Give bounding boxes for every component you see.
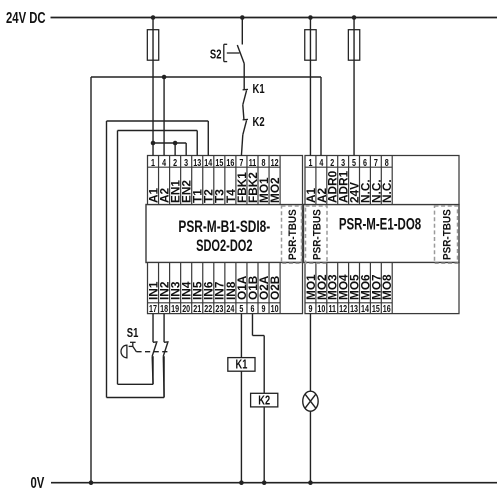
U1 top terminal row frame: [148, 156, 303, 205]
U2 pin 15 terminal MO7 (bottom): [369, 274, 383, 314]
emergency stop S1 (mushroom actuator): [121, 327, 169, 358]
svg-text:12: 12: [271, 157, 279, 169]
U2 right PSR-TBUS connector (dashed): [435, 206, 458, 263]
svg-text:11: 11: [328, 303, 336, 315]
U1 pin 7 terminal FBK1 (top): [235, 157, 249, 203]
svg-text:13: 13: [350, 303, 358, 315]
U2 pin 1 terminal A1 (top): [304, 157, 318, 203]
svg-text:10: 10: [271, 303, 279, 315]
svg-text:8: 8: [262, 157, 266, 169]
svg-text:11: 11: [249, 157, 257, 169]
indicator lamp from U2 pin 9 MO1 to 0V: [303, 314, 318, 485]
node 0V supply bus: [31, 474, 498, 491]
svg-text:19: 19: [171, 303, 179, 315]
U2 pin 14 terminal MO6 (bottom): [358, 274, 372, 314]
U1 pin 17 terminal IN1 (bottom): [146, 281, 160, 314]
S1 contact 2 (NC) to U1 pin 18 IN2: [163, 314, 168, 398]
svg-text:S2: S2: [210, 48, 222, 62]
svg-text:PSR-M-B1-SDI8-: PSR-M-B1-SDI8-: [178, 218, 270, 237]
U2 pin 2 terminal ADR0 (top): [325, 157, 339, 203]
svg-text:2: 2: [173, 157, 177, 169]
svg-text:14: 14: [361, 303, 369, 315]
svg-text:14: 14: [204, 157, 212, 169]
U2 pin 16 terminal MO8 (bottom): [380, 274, 394, 314]
U1 pin 24 terminal IN8 (bottom): [224, 281, 238, 314]
wire loop U1 pin 13 T1 to S1 contact 1: [118, 131, 198, 385]
U1 pin 11 terminal FBK2 (top): [246, 157, 260, 203]
svg-text:10: 10: [317, 303, 325, 315]
U2 pin 7 terminal N.C. (top): [369, 157, 383, 203]
svg-text:6: 6: [363, 157, 367, 169]
U1 pin 1 terminal A1 (top): [146, 157, 160, 203]
svg-text:15: 15: [215, 157, 223, 169]
svg-text:1: 1: [308, 157, 312, 169]
svg-text:16: 16: [226, 157, 234, 169]
svg-text:18: 18: [160, 303, 168, 315]
U2 pin 13 terminal MO5 (bottom): [347, 274, 361, 314]
U2 pin 9 terminal MO1 (bottom): [304, 274, 318, 314]
svg-text:7: 7: [374, 157, 378, 169]
svg-text:1: 1: [151, 157, 155, 169]
U2 pin 11 terminal MO3 (bottom): [325, 274, 339, 314]
svg-text:15: 15: [372, 303, 380, 315]
U2 pin 10 terminal MO2 (bottom): [315, 274, 329, 314]
U2 pin 12 terminal MO4 (bottom): [336, 274, 350, 314]
U1 pin 16 terminal T4 (top): [224, 157, 238, 203]
U1 pin 14 terminal T2 (top): [202, 157, 216, 203]
U1 pin 23 terminal IN7 (bottom): [213, 281, 227, 314]
svg-text:K2: K2: [253, 116, 265, 130]
pushbutton S2 (reset, NO) from 24V bus: [210, 15, 245, 77]
relay coil K1 from U1 pin 5 O1A to 0V: [228, 314, 255, 485]
svg-text:PSR-M-E1-DO8: PSR-M-E1-DO8: [339, 216, 421, 235]
svg-text:22: 22: [204, 303, 212, 315]
svg-text:16: 16: [383, 303, 391, 315]
node 24V DC supply bus: [6, 9, 497, 26]
svg-text:6: 6: [250, 303, 254, 315]
U2 pin 6 terminal N.C. (top): [358, 157, 372, 203]
U1 pin 15 terminal T3 (top): [213, 157, 227, 203]
svg-text:K1: K1: [253, 83, 265, 97]
svg-text:24V DC: 24V DC: [6, 9, 46, 26]
svg-text:2: 2: [330, 157, 334, 169]
U2 pin 5 terminal 24V (top): [347, 157, 361, 203]
U1 pin 21 terminal IN5 (bottom): [190, 281, 204, 314]
fuse F2 with wire from 24V bus to U2 pin 1 A1: [305, 15, 316, 155]
relay contact K2 (NC feedback): [241, 116, 264, 156]
svg-text:12: 12: [339, 303, 347, 315]
svg-text:3: 3: [184, 157, 188, 169]
svg-text:PSR-TBUS: PSR-TBUS: [312, 209, 323, 260]
U2 left PSR-TBUS connector (dashed): [306, 206, 328, 263]
svg-text:17: 17: [149, 303, 157, 315]
wire jumper A1 to EN1/EN2 (U1 pins 2,3): [151, 141, 186, 156]
U1 pin 12 terminal MO2 (top): [268, 157, 282, 203]
svg-text:3: 3: [341, 157, 345, 169]
svg-text:5: 5: [352, 157, 356, 169]
U1 pin 10 terminal O2B (bottom): [268, 275, 282, 314]
fuse F1 with wire from 24V bus to U1 pin 1 A1: [147, 15, 158, 155]
svg-text:S1: S1: [127, 327, 139, 341]
U1 pin 6 terminal O1B (bottom): [246, 275, 260, 314]
svg-text:8: 8: [385, 157, 389, 169]
svg-text:MO2: MO2: [268, 177, 282, 203]
U1 PSR-TBUS connector (dashed): [282, 206, 302, 263]
svg-text:9: 9: [262, 303, 266, 315]
U2 pin 8 terminal N.C. (top): [380, 157, 394, 203]
relay contact K1 (NC feedback): [243, 77, 265, 119]
U1 bottom terminal row frame: [148, 263, 303, 314]
U1 pin 2 terminal EN1 (top): [168, 157, 182, 203]
svg-text:23: 23: [215, 303, 223, 315]
S1 contact 1 (NC) to U1 pin 17 IN1: [152, 314, 157, 385]
svg-text:K1: K1: [236, 358, 248, 372]
U1 pin 3 terminal EN2 (top): [179, 157, 193, 203]
svg-text:PSR-TBUS: PSR-TBUS: [287, 209, 298, 260]
svg-text:MO8: MO8: [380, 274, 394, 300]
svg-text:7: 7: [239, 157, 243, 169]
svg-text:24: 24: [226, 303, 234, 315]
U1 pin 13 terminal T1 (top): [190, 157, 204, 203]
U1 pin 20 terminal IN4 (bottom): [179, 281, 193, 314]
svg-text:4: 4: [319, 157, 323, 169]
svg-text:9: 9: [308, 303, 312, 315]
svg-text:SDO2-DO2: SDO2-DO2: [196, 237, 252, 256]
relay coil K2 from U1 pin 6 O1B to 0V: [251, 314, 278, 485]
U1 pin 19 terminal IN3 (bottom): [168, 281, 182, 314]
U1 pin 4 terminal A2 (top): [157, 157, 171, 203]
wire loop U1 pin 14 T2 to S1 contact 2: [107, 121, 209, 398]
U1 pin 5 terminal O1A (bottom): [235, 275, 249, 314]
svg-text:K2: K2: [258, 394, 270, 408]
svg-text:13: 13: [193, 157, 201, 169]
module U2 body PSR-M-E1-DO8: [304, 205, 460, 263]
svg-text:5: 5: [239, 303, 243, 315]
U2 pin 4 terminal A2 (top): [315, 157, 329, 203]
svg-text:PSR-TBUS: PSR-TBUS: [442, 209, 453, 260]
module U1 body PSR-M-B1-SDI8-SDO2-DO2: [146, 205, 303, 263]
U1 pin 8 terminal MO1 (top): [257, 157, 271, 203]
U1 pin 18 terminal IN2 (bottom): [157, 281, 171, 314]
wire 0V return rail: left drop to 0V bus and A2 feeds: [89, 75, 321, 485]
svg-text:4: 4: [162, 157, 166, 169]
U2 top terminal row frame: [305, 156, 459, 205]
U2 bottom terminal row frame: [305, 263, 459, 314]
svg-text:20: 20: [182, 303, 190, 315]
fuse F3 with wire from 24V bus to U2 pin 5 24V: [348, 15, 359, 155]
svg-text:O2B: O2B: [268, 275, 282, 300]
svg-text:N.C.: N.C.: [380, 179, 394, 203]
svg-text:0V: 0V: [31, 474, 45, 491]
U2 pin 3 terminal ADR1 (top): [336, 157, 350, 203]
svg-text:21: 21: [193, 303, 201, 315]
U1 pin 9 terminal O2A (bottom): [257, 275, 271, 314]
U1 pin 22 terminal IN6 (bottom): [202, 281, 216, 314]
